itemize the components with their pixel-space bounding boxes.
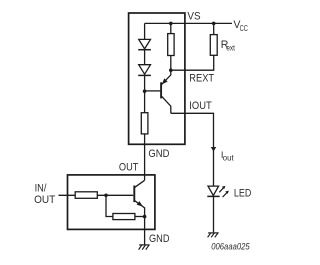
resistor Rext external xyxy=(210,23,217,55)
wire IN/OUT stub xyxy=(59,194,76,196)
svg-text:IOUT: IOUT xyxy=(189,100,212,112)
resistor R1 internal top xyxy=(168,23,174,70)
node REXT junction dot xyxy=(169,68,173,72)
svg-text:OUT: OUT xyxy=(119,162,139,174)
diode D1 xyxy=(138,39,151,49)
wire R4 to emitter node xyxy=(135,216,145,218)
transistor Q1 (PNP) xyxy=(161,70,171,113)
wire D2 to base node xyxy=(144,75,146,91)
transceiver outline U2 (lower box) xyxy=(68,175,155,230)
svg-text:006aaa025: 006aaa025 xyxy=(211,242,250,252)
driver IC outline U1 (upper box) xyxy=(129,13,185,144)
LED D3 xyxy=(207,186,219,232)
node VCC junction dot xyxy=(212,22,216,26)
svg-text:CC: CC xyxy=(240,24,248,33)
svg-text:OUT: OUT xyxy=(34,194,56,206)
LED emission arrow 2 xyxy=(223,191,229,198)
wire emitter node to ground xyxy=(144,217,146,245)
svg-text:VS: VS xyxy=(187,10,200,22)
wire IOUT net xyxy=(171,113,214,186)
wire GND pin of U1 down to OUT of U2 xyxy=(144,134,146,180)
pin label IN/OUT xyxy=(34,182,56,206)
svg-text:out: out xyxy=(223,153,235,162)
svg-text:ext: ext xyxy=(226,43,235,52)
current arrow Iout xyxy=(211,147,216,152)
node R3-R4 junction dot xyxy=(104,194,108,198)
wire REXT net xyxy=(171,55,214,70)
ground symbol at LED xyxy=(208,233,219,237)
node VS junction dot at R1 xyxy=(169,22,173,26)
wire VS net horizontal to VCC xyxy=(145,22,232,24)
wire branch down to R4 xyxy=(106,195,113,216)
svg-text:GND: GND xyxy=(148,148,169,160)
net label VCC xyxy=(233,19,248,33)
wire D1 to D2 xyxy=(144,50,146,65)
wire R3 to Q2 base xyxy=(97,194,133,196)
wire base of Q1 xyxy=(145,90,161,92)
value label Rext xyxy=(221,39,236,53)
svg-text:REXT: REXT xyxy=(189,73,214,85)
resistor R2 internal bottom xyxy=(141,91,148,134)
svg-text:LED: LED xyxy=(234,188,252,200)
resistor R3 xyxy=(75,192,97,199)
current label Iout xyxy=(221,150,235,162)
LED emission arrow 1 xyxy=(219,186,225,193)
transistor Q2 (NPN) xyxy=(134,180,144,216)
svg-text:IN/: IN/ xyxy=(35,182,47,194)
ground symbol at U2 xyxy=(139,245,150,250)
diode D2 xyxy=(138,65,151,76)
node emitter junction dot xyxy=(143,215,147,219)
resistor R4 xyxy=(113,214,135,220)
wire diode chain top lead xyxy=(144,23,146,39)
node base junction dot xyxy=(143,89,147,93)
svg-text:GND: GND xyxy=(149,233,170,245)
